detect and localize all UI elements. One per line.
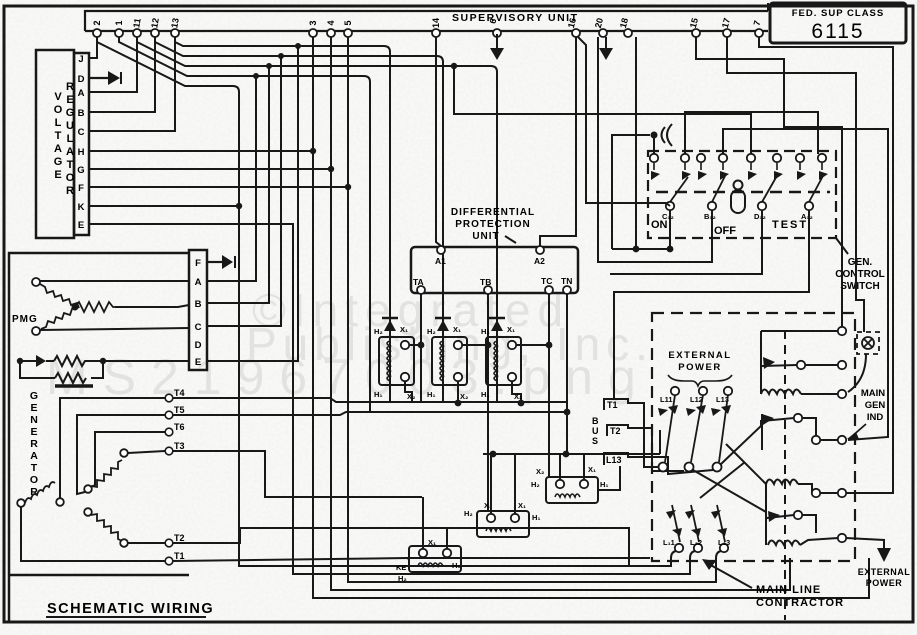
lower moving contacts [672,505,725,542]
svg-text:A: A [30,450,38,462]
svg-text:L₁1: L₁1 [663,538,675,547]
node field left [17,358,23,364]
wire A to terminal 11 [89,37,137,92]
svg-text:L₃3: L₃3 [718,538,730,547]
svg-text:V: V [54,91,62,103]
svg-text:CONTRACTOR: CONTRACTOR [756,597,844,609]
supervisory terminals [93,29,763,37]
generator winding stator horizontal [17,449,128,547]
bar under lower resistor [55,384,93,388]
wire TB drop [487,294,489,512]
wire C to terminal 13 [89,37,175,131]
wire T1 to stator left [21,507,165,561]
wire B to terminal 12 [89,37,155,112]
bottom terminals L11 L12 L13 [675,544,728,552]
wire fan from terminal 11 to CT2 primary [137,37,497,316]
svg-text:O: O [66,172,75,184]
down arrow under terminal 6 [490,34,504,60]
wire TR-B right circle up [514,454,516,514]
wire 16 second to TEST contact [578,37,762,274]
node strip C-fan [278,53,284,59]
svg-text:H₂: H₂ [398,574,407,583]
wire 7 down right edge [759,37,893,493]
svg-text:T4: T4 [174,388,185,398]
external power arrow bottom right [877,548,891,562]
svg-text:C: C [78,127,85,138]
GEN CONTROL SWITCH label [835,257,884,292]
crossing wires X [693,420,766,512]
generator/PMG enclosure box [9,250,207,621]
external power terminals L11 L12 L13 [671,387,732,395]
wire T6 down [91,432,165,487]
svg-text:12: 12 [149,17,161,29]
lower parallel branch [20,361,55,378]
relay assembly lower [766,480,884,549]
wire T2 from winding [128,542,165,544]
wire vertical from terminal 4 [331,37,790,590]
node y454 a [490,451,497,458]
current transformer CT1 [379,316,421,403]
svg-text:T1: T1 [607,400,618,410]
terminal 6 [493,29,501,37]
node F-5 [345,184,351,190]
svg-text:U: U [592,426,599,436]
wire TR-A bottom to T1 row [408,558,409,560]
wire branch to switch over y114 [454,66,751,154]
terminal 17 [723,29,731,37]
svg-text:E: E [66,94,73,106]
wire J to terminal 2 [89,37,97,58]
EXTERNAL POWER label (upper) [668,350,731,373]
wire vertical from terminal 3 [313,37,869,598]
node strip E-fan [295,43,301,49]
svg-text:E: E [30,402,37,414]
coil [761,390,801,395]
wire row with arrow and resistor [20,360,36,362]
svg-text:L: L [55,117,62,129]
svg-text:ON: ON [651,219,668,231]
svg-text:C: C [195,322,202,333]
voltage regulator vertical labels [54,81,75,197]
svg-text:KE: KE [396,563,406,572]
svg-text:T5: T5 [174,405,185,415]
switch top contact arrows [651,163,828,180]
svg-text:5: 5 [343,20,353,25]
svg-text:H₂: H₂ [464,509,473,518]
svg-text:H₂: H₂ [374,327,383,336]
svg-text:K: K [78,202,85,213]
svg-text:A1: A1 [435,256,446,266]
moving arm [767,515,794,518]
wire 18 drop to switch [635,37,637,249]
wire vertical from terminal 5 [348,37,721,582]
T1 row extended right [173,558,650,561]
wire TR-C right to contactor [598,466,620,490]
nested elbow wires from strip FABCDE up to fan rows [207,46,298,361]
switch lower contacts [666,202,813,210]
FABCDE terminal strip [189,250,207,370]
svg-text:TA: TA [413,277,424,287]
terminal TA [417,286,425,294]
transformer TR-C [546,454,598,503]
winding down-right diagonal [84,508,92,516]
top fixed contact [761,330,838,332]
bus labels T1 BUS T2 L13 [604,399,713,474]
svg-text:MAIN LINE: MAIN LINE [756,584,821,596]
node CT3 drop [518,400,525,407]
svg-text:UNIT: UNIT [472,231,499,242]
svg-text:G: G [54,156,63,168]
svg-text:A: A [78,88,85,99]
wire 20 drop [598,37,712,262]
svg-text:D: D [78,74,85,85]
current transformer CT2 [432,316,488,403]
wire F row to node 5 [89,186,348,188]
WATERMARK [46,284,654,405]
svg-text:O: O [54,104,63,116]
wire TC drop [548,294,550,478]
svg-text:X₂: X₂ [460,392,468,401]
svg-text:TB: TB [480,277,491,287]
terminal 15 [692,29,700,37]
MAIN LINE CONTRACTOR label [756,584,844,609]
wire 15 to contactor top contact [696,37,842,327]
voltage regulator terminal letters [77,54,84,231]
svg-text:B: B [592,416,599,426]
svg-text:R: R [30,438,38,450]
supervisory unit box [85,3,768,31]
svg-text:N: N [30,414,38,426]
svg-text:TN: TN [561,276,572,286]
svg-text:H₁: H₁ [532,513,541,522]
svg-text:3: 3 [308,20,318,25]
svg-text:X₂: X₂ [536,467,544,476]
svg-text:T: T [31,462,38,474]
PMG winding lower diagonal [41,306,77,329]
differential protection unit box [411,247,578,293]
svg-text:X₁: X₁ [507,325,515,334]
VR terminal D arrow connector [89,71,121,85]
node 18-drop [633,246,640,253]
wire TR-C left up [559,454,561,480]
T2 row extended right [173,528,629,566]
terminal 20 [599,29,607,37]
wire fan from terminal 13 down left bundle [175,37,390,316]
svg-text:POWER: POWER [678,362,721,373]
svg-text:E: E [195,357,201,368]
PMG winding upper diagonal [40,284,79,308]
main gen indicator lamp dashed box [857,332,879,354]
label leader arrow [505,236,516,243]
svg-text:1: 1 [114,20,124,25]
svg-text:SWITCH: SWITCH [840,281,879,292]
upper coil of lower assembly [766,480,798,485]
node ON drop [667,246,674,253]
terminal 16 [572,29,580,37]
wire fan from terminal 1 to CT1 primary [119,37,370,412]
T3 row extended right [173,451,422,497]
node CT2 drop [455,400,462,407]
terminal A2 [536,246,544,254]
svg-text:T3: T3 [174,441,185,451]
svg-text:G: G [77,165,84,176]
gen control switch dashed box [648,151,836,238]
switch row wires at y249 [612,210,670,249]
svg-text:FED. SUP CLASS: FED. SUP CLASS [792,8,884,19]
inner dashed bar [656,191,830,194]
svg-text:E: E [30,426,37,438]
wire G row to node 4 [89,168,331,170]
svg-text:H₂: H₂ [481,327,490,336]
svg-text:J: J [78,54,83,65]
switch lower contact labels [662,212,813,221]
resistor R upper [54,356,189,366]
upper-left wire mesh [89,37,869,598]
svg-text:PMG: PMG [12,314,38,325]
svg-text:GEN: GEN [865,400,886,411]
svg-text:F: F [195,258,201,269]
node G-4 [328,166,334,172]
svg-text:6115: 6115 [811,20,864,43]
node H-3 [310,148,316,154]
PMG terminal upper [32,278,40,286]
PMG winding horizontal [75,302,115,312]
wire PMG center to strip B [115,305,189,307]
svg-text:OFF: OFF [714,225,736,237]
upper moving contacts with arrows [665,395,728,462]
svg-text:PROTECTION: PROTECTION [455,219,531,230]
node PMG center [72,304,79,311]
svg-text:EXTERNAL: EXTERNAL [858,567,911,577]
wire H row to node 3 [89,150,313,152]
svg-text:H₁: H₁ [452,561,461,570]
pole circles [659,463,722,472]
exciter field circuit row to strip E [20,355,189,386]
node strip B-fan [253,73,259,79]
svg-text:T2: T2 [174,533,185,543]
svg-text:G: G [30,390,38,402]
svg-text:EXTERNAL: EXTERNAL [668,350,731,361]
node TN end [564,409,571,416]
svg-text:H: H [78,147,85,158]
current transformer CT3 [486,316,549,403]
FABCDE strip letters [195,258,202,368]
switch blades [670,174,824,202]
wire TN drop [566,294,568,454]
MAIN GEN IND label [861,388,886,423]
transformer TR-B [477,454,529,537]
svg-text:SUPERVISORY UNIT: SUPERVISORY UNIT [452,12,579,24]
svg-text:2: 2 [92,20,102,25]
terminal 18 [624,29,632,37]
svg-text:F: F [78,183,84,194]
terminal TN [563,286,571,294]
PMG windings [32,278,189,335]
switch top contacts [650,154,826,162]
svg-text:D₁₂: D₁₂ [754,212,766,221]
node K [236,203,242,209]
svg-text:T1: T1 [174,551,185,561]
svg-text:H₁: H₁ [600,480,609,489]
node fan3 [451,63,457,69]
wire E row [89,224,695,574]
PMG terminal lower [32,327,40,335]
svg-text:H₂: H₂ [427,327,436,336]
label leader [836,238,848,254]
down arrow under terminal 20 [599,37,613,60]
node y454 b [563,451,570,458]
switch top risers [685,112,888,440]
toggle handle [731,181,745,214]
terminal TC [545,286,553,294]
svg-text:13: 13 [169,17,181,29]
svg-text:X₁: X₁ [518,501,526,510]
svg-text:B: B [195,299,202,310]
svg-text:L11: L11 [660,395,673,404]
bottom coil [768,541,800,546]
wire fan from terminal 12 to CT3 primary [155,37,443,316]
terminal 7 [755,29,763,37]
svg-text:H₁: H₁ [427,390,436,399]
svg-text:X₁: X₁ [588,465,596,474]
terminal 14 [432,29,440,37]
svg-text:H₂: H₂ [531,480,540,489]
svg-text:11: 11 [131,17,143,28]
transformer TR-A [409,497,461,572]
wire 17 to lamp [727,37,864,332]
svg-text:G: G [66,107,75,119]
node field right [100,358,106,364]
terminal 3 [309,29,317,37]
EXTERNAL POWER label (bottom right) [858,567,911,588]
winding up-right diagonal [84,485,92,493]
wire PMG upper to strip A [40,280,189,282]
wire T4 to stator [60,398,165,498]
svg-text:H₁: H₁ [481,390,490,399]
strip F arrow connector [207,255,235,269]
svg-text:GEN.: GEN. [848,257,873,268]
T5 row extended [173,412,567,415]
svg-text:E: E [54,169,61,181]
svg-text:L13: L13 [606,455,622,465]
svg-text:A: A [195,277,202,288]
FED SUP CLASS 6115 box [770,3,906,43]
svg-text:X₁: X₁ [400,325,408,334]
svg-text:A2: A2 [534,256,545,266]
terminal 11 [133,29,141,37]
T4 row extended (CT return bus) [173,398,567,402]
svg-text:B₁₂: B₁₂ [704,212,716,221]
wire A12 to bus T1 [614,210,809,399]
terminal 1 [115,29,123,37]
wire TR-B left up [490,454,492,514]
svg-text:SCHEMATIC WIRING: SCHEMATIC WIRING [47,601,214,617]
relay assembly upper (main contactor coil) [761,327,866,398]
svg-text:S: S [592,436,598,446]
wire 14 to A1 [436,37,441,246]
svg-text:X₁: X₁ [453,325,461,334]
voltage regulator box [36,50,89,238]
svg-text:POWER: POWER [866,578,903,588]
terminal numbers [92,17,762,29]
svg-text:14: 14 [431,18,441,28]
svg-text:D: D [195,340,202,351]
svg-text:T: T [55,130,62,142]
svg-text:MAIN: MAIN [861,388,885,399]
svg-text:X₁: X₁ [428,538,436,547]
terminal 13 [171,29,179,37]
wire T3 from winding [128,451,165,453]
bus row y454 [483,430,660,454]
svg-text:T6: T6 [174,422,185,432]
generator terminals T4 T5 T6 T3 T2 T1 [165,394,173,565]
wire lamp to coil curve [848,354,866,392]
terminal TB [484,286,492,294]
terminal 5 [344,29,352,37]
terminal 12 [151,29,159,37]
wire strip C up [207,56,281,326]
svg-text:TEST: TEST [772,219,808,231]
wire K row [89,205,239,207]
wire TA drop [420,294,422,402]
brace under label [668,375,732,386]
svg-text:X₂: X₂ [407,392,415,401]
wire T5 down [77,415,165,494]
resistor R lower [55,373,86,383]
svg-text:H₁: H₁ [374,390,383,399]
junction dots CT secondary rows [418,342,553,349]
leader IND to circle [850,424,866,438]
wire TR-A right circle up to T2 row [446,528,448,549]
svg-text:A: A [66,146,74,158]
svg-text:4: 4 [326,20,336,25]
svg-text:T2: T2 [610,426,621,436]
main line contactor dashed box [652,313,855,561]
svg-text:R: R [66,81,74,93]
GENERATOR label [30,390,38,498]
right side vertical wires [696,37,893,493]
wire TR-C right circle up [583,454,585,480]
wire 16 to A2 [540,37,576,246]
svg-text:T: T [67,159,74,171]
svg-text:DIFFERENTIAL: DIFFERENTIAL [451,207,535,218]
differential protection unit label [451,207,535,242]
linkage dashed vertical [784,330,786,620]
svg-text:E: E [78,220,84,231]
wire strip E up [207,46,298,361]
svg-text:B: B [78,108,85,119]
svg-text:IND: IND [867,412,884,423]
svg-text:L₂2: L₂2 [690,538,702,547]
leader to contactor box [707,563,752,588]
relay assembly mid contact [762,414,846,450]
svg-text:L: L [67,133,74,145]
moving arm [762,365,797,366]
wire PMG lower to strip C [40,328,189,330]
generator internal wires [21,398,165,561]
svg-text:U: U [66,120,74,132]
svg-text:A: A [54,143,62,155]
wire strip B up [207,66,269,303]
terminal 4 [327,29,335,37]
svg-text:TC: TC [541,276,552,286]
terminal A1 [437,246,445,254]
wire strip A up [207,76,256,281]
terminal 2 [93,29,101,37]
wire fan from terminal 2 to K node [97,37,676,566]
svg-text:R: R [66,185,74,197]
ground arcs symbol [612,124,672,249]
